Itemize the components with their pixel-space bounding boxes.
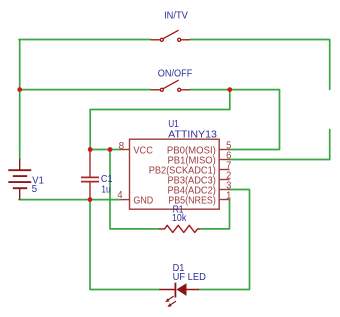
wire: IN/TV net left vertical (top-left down to battery +) [19,40,21,159]
svg-text:GND: GND [133,195,153,206]
svg-text:4: 4 [117,190,123,201]
svg-text:10k: 10k [172,213,187,224]
LED cathode bar [174,283,176,298]
LED left lead (cathode) [159,289,175,291]
pin stub PB5 pin 1 [219,199,229,201]
svg-text:IN/TV: IN/TV [164,10,188,21]
LED arrow 2 [171,301,176,305]
wire: IN/TV switch output to top-right corner and down (dangling) [190,40,330,90]
LED right lead (anode) [187,289,199,291]
wire: IN/TV top horizontal to switch [19,39,151,41]
pin stub PB2 pin 7 [219,169,229,171]
LED triangle [176,283,186,296]
LED D1 [159,283,199,307]
wire: VCC feed down to R1 left lead [110,150,159,229]
resistor R1 [159,225,200,232]
wire: ON/OFF output horizontal, down to pin5 row, back to pin 5 [190,90,279,150]
junction: ground rail / C1 bottom [88,197,93,202]
svg-text:VCC: VCC [133,145,153,156]
svg-text:1u: 1u [101,184,111,195]
junction: VCC rail / R1 feed [108,147,113,152]
pin stub GND pin 4 [121,199,130,201]
wire: ground down to LED cathode [90,200,159,290]
pin stub VCC pin 8 [121,149,130,151]
svg-text:ATTINY13: ATTINY13 [168,130,217,141]
svg-text:ON/OFF: ON/OFF [158,68,193,79]
wire: ground rail from battery - to pin 4 [19,199,121,201]
switch S2 ON/OFF [151,80,191,91]
wire: R1 right lead up to pin 1 (NRES) [200,200,229,229]
switch S1 IN/TV [151,30,191,41]
pin stub PB4 pin 3 [219,189,229,191]
pin stub PB1 pin 6 [219,159,229,161]
battery V1 [8,159,31,200]
wire: pin 6 (MISO) right and up (dangling) [230,130,330,160]
svg-text:1: 1 [226,190,232,201]
op IC U1 ATTINY13 box [130,139,220,209]
svg-text:8: 8 [119,141,125,152]
svg-text:UF LED: UF LED [173,272,206,283]
wire: from ON/OFF junction down, left, down to VCC rail [90,90,230,150]
junction: VCC rail / C1 top [88,147,93,152]
LED arrow 1 [168,296,173,300]
capacitor C1 [81,150,99,200]
svg-text:U1: U1 [168,119,179,130]
wire: ON/OFF input horizontal [19,89,151,91]
wire: LED anode right, up to pin 3 (PB4) [199,190,250,290]
pin stub PB3 pin 2 [219,179,229,181]
wire: VCC rail to pin 8 [90,149,120,151]
junction: ON/OFF output tap [227,87,232,92]
svg-text:5: 5 [32,184,38,195]
pin stub PB0 pin 5 [219,149,229,151]
junction: left vertical x ON/OFF input [17,87,22,92]
